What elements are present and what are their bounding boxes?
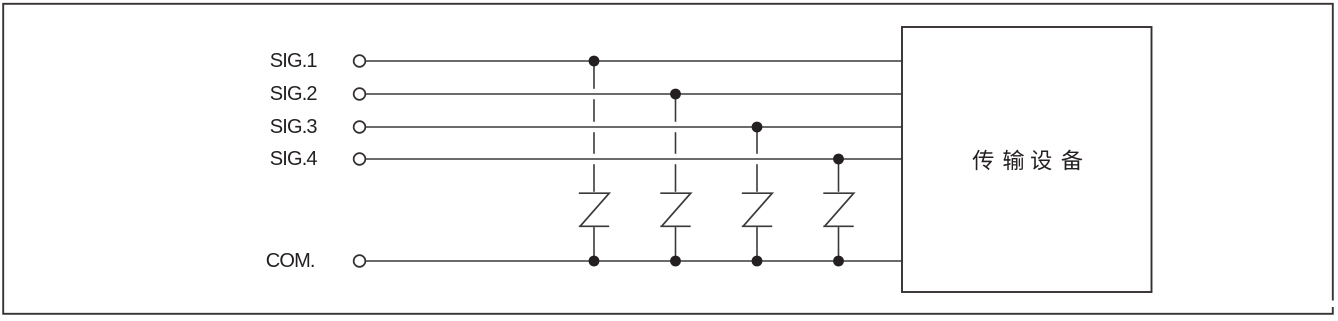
svg-text:SIG.3: SIG.3 — [270, 116, 318, 138]
svg-text:SIG.2: SIG.2 — [270, 83, 318, 105]
svg-text:SIG.1: SIG.1 — [270, 50, 318, 72]
svg-text:COM.: COM. — [266, 250, 315, 272]
svg-text:SIG.4: SIG.4 — [270, 148, 318, 170]
